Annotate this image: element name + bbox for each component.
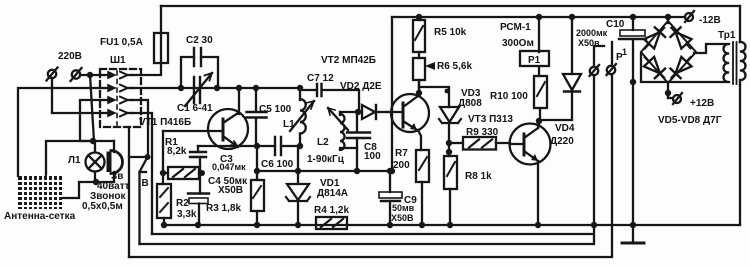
diode VD4 <box>540 17 581 120</box>
wire row4 from terminal1 <box>52 112 102 114</box>
svg-text:С7 12: С7 12 <box>307 73 334 84</box>
terminal 220V left <box>47 68 58 114</box>
svg-text:50мв: 50мв <box>392 203 415 213</box>
wire row2 to main line <box>131 87 300 89</box>
svg-text:VD4: VD4 <box>555 123 575 134</box>
wire right edge primary feed <box>739 6 741 42</box>
svg-text:Д220: Д220 <box>550 136 574 147</box>
connector pins row 1 <box>103 72 132 79</box>
wire row4 right to bus2 <box>132 113 152 234</box>
resistor R3 <box>251 146 264 225</box>
svg-text:+12В: +12В <box>690 98 714 109</box>
svg-text:1: 1 <box>622 47 627 57</box>
coil L1 variable <box>290 88 314 146</box>
wire bottom common bus <box>163 224 740 226</box>
terminal -12V <box>685 11 694 22</box>
ground <box>622 225 644 243</box>
fuse FU1 <box>132 6 168 75</box>
wire base divider riser <box>162 131 164 184</box>
svg-text:Х50в: Х50в <box>578 38 600 48</box>
svg-text:R2: R2 <box>176 198 189 209</box>
svg-text:С1 6-41: С1 6-41 <box>177 103 213 114</box>
svg-text:VD5-VD8 Д7Г: VD5-VD8 Д7Г <box>658 115 722 126</box>
wire row3 drop to lamp node <box>80 100 102 141</box>
svg-text:С5 100: С5 100 <box>259 104 292 115</box>
connector Sh1 dashed box <box>100 69 141 127</box>
svg-text:R10 100: R10 100 <box>490 91 528 102</box>
capacitor C5 <box>247 88 267 146</box>
diode VD5 <box>640 23 669 53</box>
resistor R7 <box>416 150 429 225</box>
transistor VT3 <box>510 120 551 225</box>
svg-text:С6 100: С6 100 <box>261 159 294 170</box>
svg-text:Р1: Р1 <box>528 55 541 66</box>
wire bridge right apex to secondary <box>694 44 726 53</box>
svg-text:Х50В: Х50В <box>391 213 414 223</box>
svg-text:R8 1k: R8 1k <box>465 171 492 182</box>
transistor VT2 <box>387 80 429 150</box>
svg-text:R3 1,8k: R3 1,8k <box>206 203 241 214</box>
svg-text:Тр1: Тр1 <box>718 30 736 41</box>
svg-text:В: В <box>142 178 149 189</box>
resistor R1 <box>163 167 203 179</box>
terminal P1 contact 2 <box>607 64 617 75</box>
svg-text:R6 5,6k: R6 5,6k <box>437 61 472 72</box>
svg-text:VТ3 П313: VТ3 П313 <box>468 114 513 125</box>
capacitor C9 electrolytic <box>379 171 402 225</box>
terminal +12V <box>668 93 682 104</box>
wire row3 right to switch <box>132 100 148 155</box>
wire bottom bus 3 relay contact A <box>140 46 605 244</box>
svg-text:200: 200 <box>393 160 410 171</box>
svg-text:L1: L1 <box>283 119 295 130</box>
wire bridge bottom apex <box>667 82 669 98</box>
capacitor C2 <box>181 48 218 88</box>
svg-text:Ш1: Ш1 <box>110 55 126 66</box>
svg-text:R7: R7 <box>395 148 408 159</box>
resistor R5 <box>413 17 425 58</box>
svg-text:Х50В: Х50В <box>218 185 243 196</box>
capacitor C10 electrolytic <box>619 17 646 225</box>
svg-text:8,2k: 8,2k <box>167 146 187 157</box>
svg-text:R4 1,2k: R4 1,2k <box>314 205 349 216</box>
capacitor C4 electrolytic <box>188 167 209 225</box>
svg-text:0,047мк: 0,047мк <box>212 162 246 172</box>
capacitor C8 <box>347 112 370 171</box>
svg-text:Л1: Л1 <box>68 155 81 166</box>
resistor R9 <box>449 137 510 150</box>
zener VD1 <box>286 146 310 225</box>
terminal P1 contact 1 <box>590 65 600 76</box>
relay P1 <box>520 17 549 76</box>
wire L2 C8 top node <box>340 111 359 113</box>
diode VD8 <box>666 52 695 82</box>
wire second supply bus <box>392 16 685 18</box>
wire plug row1 feed <box>90 75 94 141</box>
wire middle node line <box>257 170 392 172</box>
connector pins row 2 <box>103 85 132 92</box>
svg-text:L2: L2 <box>317 137 329 148</box>
capacitor C3 <box>190 146 206 173</box>
svg-text:VD2 Д2Е: VD2 Д2Е <box>340 81 382 92</box>
connector pins row 4 <box>103 110 132 117</box>
svg-text:Д808: Д808 <box>458 98 482 109</box>
bridge VD5-VD8 <box>640 17 726 98</box>
wire grid riser 2 <box>46 141 93 176</box>
svg-text:-12В: -12В <box>699 15 721 26</box>
wire right edge to bottom bus <box>739 85 741 225</box>
bell Zv <box>107 141 123 182</box>
junction dots left <box>87 72 99 185</box>
svg-text:VТ2 МП42Б: VТ2 МП42Б <box>321 55 376 66</box>
svg-text:3,3k: 3,3k <box>177 209 197 220</box>
diode VD6 <box>666 23 695 53</box>
wire L2 C8 bottom <box>340 147 357 149</box>
svg-text:VТ1 П416Б: VТ1 П416Б <box>139 117 191 128</box>
svg-text:FU1 0,5А: FU1 0,5А <box>100 37 143 48</box>
capacitor C1 variable <box>185 73 212 106</box>
capacitor C7 <box>300 84 362 112</box>
svg-text:Д814А: Д814А <box>317 188 348 199</box>
resistor R8 <box>444 143 457 225</box>
wire lamp bottom return <box>63 182 114 198</box>
svg-text:220В: 220В <box>58 51 82 62</box>
svg-text:300Ом: 300Ом <box>502 38 534 49</box>
wire top supply line <box>161 5 740 7</box>
svg-text:Антенна-сетка: Антенна-сетка <box>4 211 76 222</box>
svg-text:С10: С10 <box>606 19 625 30</box>
svg-text:2000мк: 2000мк <box>576 28 608 38</box>
transistor VT1 <box>163 88 248 149</box>
wire riser bus to node line <box>391 17 393 171</box>
svg-text:100: 100 <box>364 151 381 162</box>
antenna mesh <box>18 176 62 209</box>
svg-text:R9 330: R9 330 <box>466 127 499 138</box>
coil L2 variable <box>328 108 348 150</box>
wire antenna riser to row2 <box>18 88 102 176</box>
svg-text:1-90кГц: 1-90кГц <box>307 154 345 165</box>
wire bottom bus 4 relay contact B <box>129 42 612 257</box>
resistor R2 <box>157 184 171 225</box>
svg-text:С2 30: С2 30 <box>186 35 213 46</box>
transformer Tr1 <box>724 42 746 85</box>
resistor R4 <box>316 217 347 229</box>
lamp L1 <box>86 141 105 182</box>
connector pins row 3 <box>103 97 132 104</box>
zener VD3 <box>439 107 461 143</box>
switch B <box>129 127 149 257</box>
diode VD7 <box>640 52 669 82</box>
svg-text:0,5х0,5м: 0,5х0,5м <box>82 201 123 212</box>
svg-text:R5 10k: R5 10k <box>434 27 467 38</box>
svg-text:РСМ-1: РСМ-1 <box>500 22 531 33</box>
resistor R6 <box>413 58 425 91</box>
arrow R6 tap <box>425 62 435 70</box>
wire lamp top node <box>93 140 114 142</box>
terminal 220V right <box>71 68 103 81</box>
wire VT1 emitter row <box>198 145 300 147</box>
wire bridge left apex to secondary <box>641 53 726 82</box>
wire R6 tap to VD3 <box>419 87 449 107</box>
capacitor C6 <box>275 137 281 155</box>
diode VD2 <box>362 105 387 119</box>
resistor R10 <box>534 76 547 128</box>
wire bottom bus 2 <box>152 233 592 235</box>
